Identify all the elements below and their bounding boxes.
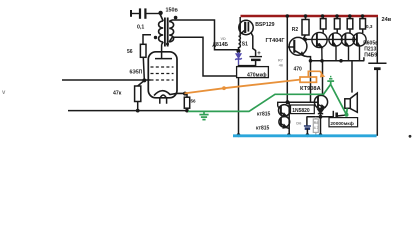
wire emitter node to blue rail bbox=[320, 117, 322, 135]
svg-text:VD: VD bbox=[221, 37, 227, 41]
node rail-resistor junction bbox=[136, 109, 140, 113]
svg-text:4.7: 4.7 bbox=[314, 126, 319, 130]
transistor Q5 P605 bbox=[341, 33, 354, 61]
svg-text:1N5820: 1N5820 bbox=[292, 108, 310, 114]
wire speaker drop bbox=[351, 61, 353, 93]
diode 1N5820 bbox=[318, 108, 323, 117]
wire kt815 collector to rail bbox=[288, 102, 290, 135]
svg-text:46: 46 bbox=[279, 64, 283, 68]
svg-text:470: 470 bbox=[294, 67, 303, 73]
node 150v bbox=[158, 11, 162, 15]
node zener-line rail dot bbox=[237, 133, 241, 137]
resistor R8 grey bbox=[313, 117, 318, 135]
svg-text:R2: R2 bbox=[292, 27, 299, 33]
svg-text:кт815: кт815 bbox=[256, 126, 270, 132]
stray mark bottom right bbox=[409, 135, 412, 138]
transistor Q6 P4B bbox=[353, 33, 366, 61]
svg-text:R8: R8 bbox=[314, 121, 319, 125]
wire zener to blue rail bbox=[238, 65, 240, 135]
svg-text:6Э5П: 6Э5П bbox=[130, 70, 143, 76]
resistor R 47k bbox=[135, 80, 145, 110]
node V1 rail dot bbox=[286, 14, 290, 18]
svg-text:Д814Б: Д814Б bbox=[213, 42, 229, 48]
resistor 0,3 row 4 bbox=[360, 17, 366, 33]
node grid junction bbox=[142, 78, 146, 82]
wire base chain bbox=[305, 38, 357, 40]
svg-text:47к: 47к bbox=[113, 91, 122, 97]
svg-text:20000мкф: 20000мкф bbox=[330, 120, 353, 127]
wire bottom ground rail left bbox=[68, 110, 187, 112]
svg-text:D6: D6 bbox=[296, 120, 302, 125]
capacitor 470uF bbox=[239, 57, 262, 66]
resistor 0,3 row 2 bbox=[334, 17, 340, 33]
svg-text:кт815: кт815 bbox=[257, 112, 271, 118]
transistor Q3 P605 bbox=[312, 32, 327, 60]
svg-text:150в: 150в bbox=[166, 8, 179, 14]
zener diode D814B bbox=[235, 52, 242, 65]
tube grids dashed bbox=[151, 67, 174, 80]
resistor 56 cathode bbox=[184, 94, 189, 111]
transistor Q7 KT908A bbox=[314, 95, 327, 108]
battery 24v bbox=[368, 17, 386, 136]
node secondary polarity dot bbox=[174, 16, 178, 20]
transformer TR1 primary bbox=[159, 14, 164, 45]
node base chain start bbox=[303, 38, 307, 42]
label box 20000uF bbox=[329, 118, 358, 127]
transistor Q4 P213 bbox=[329, 33, 342, 61]
ground rail blue bbox=[233, 134, 377, 137]
wire green ground net bbox=[188, 81, 347, 115]
svg-text:0,3: 0,3 bbox=[366, 24, 373, 29]
node rail-cathode junction bbox=[185, 109, 189, 113]
wire output bus bbox=[309, 57, 364, 61]
transistor Q9 KT815 bottom bbox=[279, 116, 290, 128]
wire secondary top to right bbox=[172, 20, 238, 50]
node bus dots bbox=[309, 59, 313, 63]
svg-text:24в: 24в bbox=[382, 17, 392, 23]
tube cathode bbox=[154, 91, 185, 96]
resistor 470 orange bbox=[185, 71, 323, 93]
svg-text:470мкф: 470мкф bbox=[247, 71, 267, 78]
node cathode junction bbox=[183, 92, 187, 96]
svg-text:КТ908А: КТ908А bbox=[300, 86, 321, 92]
svg-text:+: + bbox=[257, 51, 261, 57]
svg-text:BSP129: BSP129 bbox=[255, 22, 274, 28]
svg-text:П605в: П605в bbox=[363, 40, 378, 46]
svg-text:56: 56 bbox=[191, 98, 197, 103]
svg-text:R7: R7 bbox=[278, 59, 283, 63]
node green junction bbox=[345, 113, 349, 117]
resistor R2 bbox=[302, 17, 309, 39]
ground symbol green right inverted bbox=[327, 77, 334, 82]
tube anode bbox=[155, 45, 172, 59]
transistor Q8 KT815 top bbox=[278, 105, 290, 117]
svg-text:56: 56 bbox=[127, 49, 133, 55]
wire emitter node horizontal bbox=[307, 116, 334, 118]
switch S1 coil bbox=[239, 36, 241, 50]
wire V1 rail to base bbox=[287, 17, 318, 102]
transformer TR1 secondary bbox=[169, 20, 173, 42]
resistor 56 snubber bbox=[140, 35, 151, 80]
svg-text:ГТ404Г: ГТ404Г bbox=[266, 38, 286, 44]
capacitor 0,1 input coupling bbox=[131, 8, 160, 18]
ground symbol green left bbox=[199, 111, 208, 119]
node primary polarity dot bbox=[154, 36, 157, 39]
wire secondary bottom down-right bbox=[172, 37, 237, 76]
node S1-zener junction bbox=[236, 49, 240, 53]
resistor 0,3 row 1 bbox=[320, 17, 326, 33]
resistor 0,3 row 3 bbox=[347, 17, 353, 33]
wire grid input line bbox=[62, 79, 151, 81]
label box 470uF bbox=[237, 67, 269, 78]
capacitor C navy small bbox=[304, 117, 311, 135]
speaker LS1 bbox=[345, 93, 358, 112]
transformer core bbox=[165, 18, 168, 47]
svg-text:П4Б9: П4Б9 bbox=[364, 53, 377, 59]
transistor Q2 GT404G bbox=[287, 37, 310, 102]
tube heater bbox=[160, 95, 167, 104]
svg-text:0,1: 0,1 bbox=[137, 25, 144, 31]
svg-text:S1: S1 bbox=[242, 42, 248, 48]
label box 1N5820 bbox=[291, 105, 315, 114]
tube U1 6E5P envelope bbox=[148, 52, 177, 98]
capacitor 20000uF bbox=[333, 111, 346, 122]
transistor Q1 BSP129 bbox=[239, 17, 256, 56]
power rail 24v red bbox=[241, 15, 379, 18]
wire KT908 collector bbox=[322, 61, 324, 96]
